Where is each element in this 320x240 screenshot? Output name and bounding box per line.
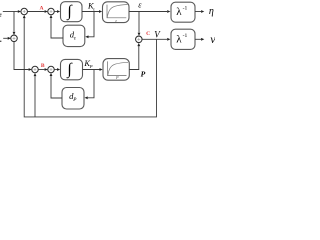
wire integrator bottom to saturation bottom, gain K_P label [83, 69, 100, 71]
wire S3 output down and right to sum A2 [14, 42, 29, 70]
wire lambda bottom to output nu [195, 38, 201, 40]
svg-text:-1: -1 [183, 33, 188, 39]
wire integrator to saturation, gain K_eps label [82, 11, 99, 13]
svg-text:λ: λ [176, 6, 182, 18]
svg-text:V: V [154, 29, 161, 39]
wire sum C to lambda bottom, node V [142, 38, 167, 40]
svg-text:A: A [40, 6, 44, 12]
wire S1 to S2 [27, 11, 44, 13]
svg-text:ε: ε [93, 6, 95, 11]
wire saturation bottom output P up to sum C [129, 46, 139, 70]
wire branch down to sum C [138, 12, 140, 33]
input label fragment left edge top [0, 14, 2, 17]
svg-text:P: P [89, 64, 93, 69]
svg-text:B: B [41, 63, 45, 69]
wire branch down into d_eps [88, 12, 94, 37]
integrator block top [61, 2, 83, 22]
sum junction A2 (bottom row left) [32, 66, 39, 73]
wire branch down to sum S3 [13, 12, 15, 32]
sum junction S3 [11, 35, 18, 42]
lambda^-1 block bottom [171, 29, 195, 49]
integrator block bottom [61, 59, 83, 79]
sum junction C [136, 36, 143, 43]
wire S2 to integrator [54, 11, 57, 13]
sum junction S2 [48, 8, 55, 15]
block d_P [62, 88, 84, 110]
wire d_eps output up to S2 [51, 18, 63, 38]
svg-text:ε: ε [138, 1, 142, 10]
wire input P_d (left, middle) [3, 37, 8, 39]
arrowhead into sum S1 [18, 10, 21, 13]
svg-text:-1: -1 [183, 6, 188, 12]
svg-text:ν: ν [210, 32, 215, 46]
wire feedback V to bottom line, up to S1 [24, 18, 156, 117]
wire B2 to integrator bottom [54, 69, 57, 71]
saturation block top [103, 2, 130, 23]
sum junction B2 (bottom row right) [48, 66, 55, 73]
svg-text:P: P [141, 70, 146, 79]
block d_eps [63, 25, 85, 46]
wire A2 to B2 [38, 69, 44, 71]
svg-text:C: C [146, 31, 150, 37]
wire feedback branch up to A2 [34, 76, 36, 117]
wire lambda top to output eta [195, 11, 201, 13]
input label fragment left edge middle [0, 41, 1, 42]
svg-text:η: η [209, 6, 214, 17]
sum junction S1 [21, 8, 28, 15]
saturation block bottom [103, 59, 129, 81]
wire input eta_d (top-left) [3, 11, 18, 13]
wire d_P output up to B2 [51, 76, 62, 98]
lambda^-1 block top [171, 2, 195, 22]
wire branch down into d_P [88, 70, 94, 98]
wire saturation to lambda top, node epsilon [129, 11, 167, 13]
svg-text:λ: λ [176, 33, 182, 45]
svg-text:P: P [115, 75, 119, 80]
